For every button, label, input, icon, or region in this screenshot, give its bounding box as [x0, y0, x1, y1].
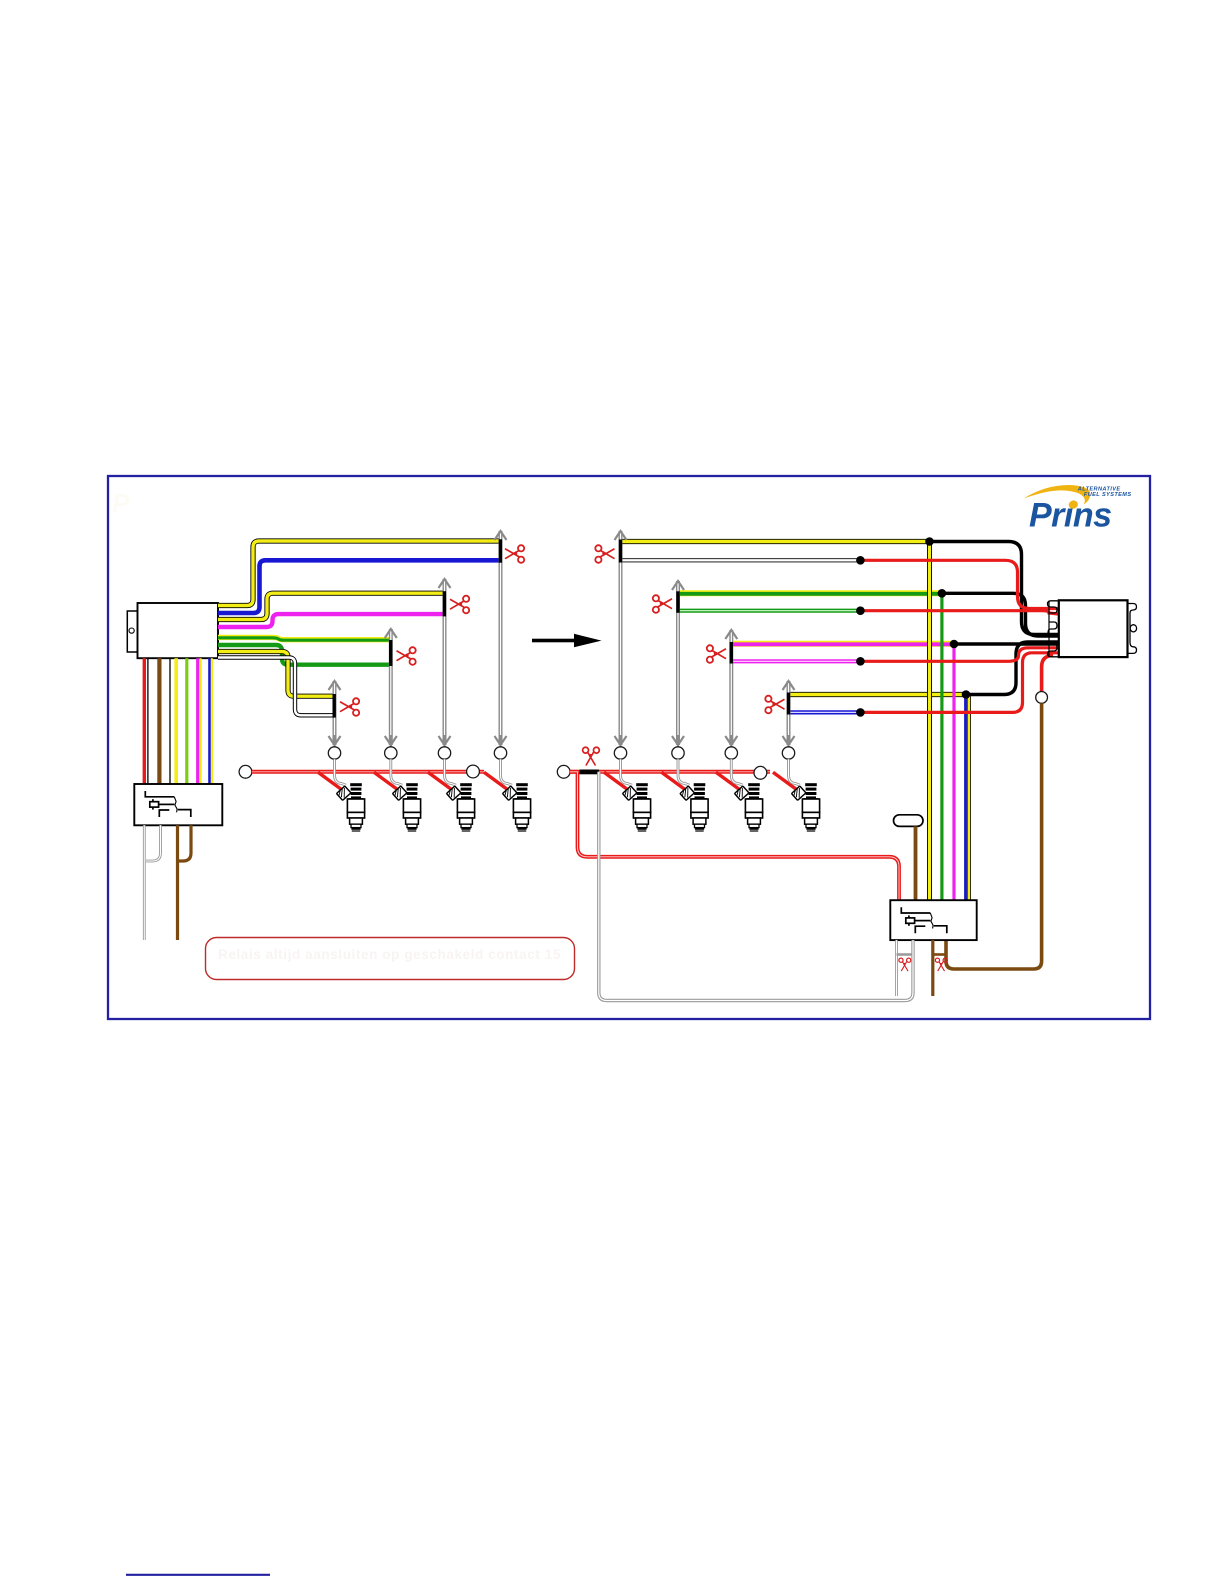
scissors cut pair4	[340, 698, 359, 716]
cut mark pair3 right	[730, 642, 733, 664]
wire injector2 signal magenta	[218, 614, 445, 627]
OEM ECU connector J1	[127, 603, 218, 658]
scissors cut pair1 right	[595, 545, 614, 563]
red branch to injector 2 right	[662, 772, 686, 789]
footer rule	[126, 1574, 270, 1576]
junction dot 3	[950, 640, 959, 649]
splice ring on left bus	[467, 765, 480, 778]
wire ring to injector 4 right	[782, 747, 794, 759]
wire injector4 yellow right	[789, 692, 967, 697]
grey pin stub cut	[895, 940, 898, 996]
ECU harness wire brown ground	[157, 658, 161, 784]
cut wire injector3 magenta right	[731, 659, 860, 663]
grey pin wire left relay 1	[143, 825, 146, 940]
petrol injector 3 left	[446, 783, 474, 831]
brown pin stub cut	[931, 940, 934, 996]
cut mark pair1	[499, 539, 502, 562]
petrol injector 4 right	[791, 783, 819, 831]
red wire from splice 3	[860, 648, 1058, 662]
cut mark pair3	[389, 640, 392, 666]
12V supply ring terminal left	[239, 765, 252, 778]
Prins logo swoosh	[1024, 485, 1091, 504]
brown wire ring to gas relay	[946, 703, 1042, 969]
splice ring on right bus	[754, 766, 767, 779]
cut mark pair4 right	[787, 693, 790, 715]
red branch to injector 1 left	[318, 772, 342, 789]
faint ghost logo top-left	[112, 488, 130, 518]
red branch to injector 1 right	[604, 772, 628, 789]
brown rung	[933, 953, 946, 956]
scissors cut red bus	[583, 747, 600, 765]
red wire from splice 4	[860, 653, 1058, 713]
grey pull-down arrow left 4	[333, 681, 337, 745]
scissors cut pair2	[450, 596, 469, 614]
Prins VSI ECU connector	[1048, 600, 1137, 657]
ECU harness wire yellow	[211, 658, 213, 784]
transition arrow	[532, 639, 576, 643]
wire ring to injector 3 right	[725, 747, 737, 759]
yellow drop wire to relay	[927, 542, 932, 901]
junction dot 1	[925, 537, 934, 546]
wire injector4 signal yellow	[218, 652, 334, 697]
red wire from splice 1	[860, 560, 1058, 608]
red wire connector to ring terminal	[1042, 656, 1053, 692]
svg-text:Prıns: Prıns	[1029, 497, 1112, 535]
wire ring to injector 1 right	[614, 747, 626, 759]
black wire from junction 3	[954, 642, 1058, 645]
grey pull-down arrow right 4	[787, 681, 791, 745]
petrol injector 4 left	[502, 783, 530, 831]
ECU harness wire blue	[208, 658, 211, 784]
relay symbol right	[901, 907, 947, 933]
ECU harness wire magenta	[196, 658, 199, 784]
warning note box	[206, 938, 575, 980]
wire injector2 signal yellow	[218, 593, 445, 619]
petrol injector 3 right	[734, 783, 762, 831]
red supply bus right	[570, 770, 770, 774]
wire injector3 magenta-yellow right	[731, 641, 954, 647]
splice dot 4	[856, 708, 865, 717]
wire ring to injector 2 left	[385, 747, 397, 759]
ECU harness wire black	[169, 658, 171, 784]
svg-text:Relais altijd aansluiten op ge: Relais altijd aansluiten op geschakeld c…	[218, 947, 561, 962]
petrol injector 1 right	[622, 783, 650, 831]
black wire from junction 1	[930, 542, 1059, 635]
cut mark pair1 right	[619, 540, 622, 563]
petrol injector 1 left	[336, 783, 364, 831]
ring terminal battery	[1036, 692, 1048, 704]
magenta drop wire to relay	[952, 644, 955, 900]
svg-text:P: P	[112, 488, 130, 518]
red wire from splice 2	[860, 611, 1058, 614]
splice dot 2	[856, 606, 865, 615]
Prins gas relay	[890, 900, 976, 940]
red branch to injector 4 right	[773, 772, 797, 789]
cut wire injector2 green right	[678, 609, 860, 613]
Prins logo i-dot	[1068, 499, 1079, 510]
grey pull-down arrow left 1	[499, 531, 503, 745]
black wire from junction 2	[942, 593, 1058, 636]
red supply bus left	[252, 770, 484, 774]
grey ground loop wire	[599, 772, 913, 1001]
wire ring to injector 3 left	[438, 747, 450, 759]
red branch to injector 4 left	[484, 772, 508, 789]
red wire bus to gas relay	[570, 772, 899, 900]
grey pull-down arrow left 2	[443, 579, 447, 745]
grey pull-down arrow right 1	[619, 531, 623, 745]
12V ring terminal right	[557, 765, 570, 778]
fuse 15A	[894, 815, 924, 827]
splice dot 3	[856, 657, 865, 666]
wire injector3 signal green	[218, 645, 391, 665]
wire ring to injector 1 left	[328, 747, 340, 759]
wire injector1 signal blue	[218, 560, 501, 613]
wire injector1 signal yellow	[218, 541, 501, 606]
yellow drop wire 2 to relay	[967, 696, 971, 901]
wire injector4 signal white	[218, 658, 334, 716]
wire ring to injector 4 left	[494, 747, 506, 759]
ECU harness wire black	[147, 658, 149, 784]
diagram frame border	[108, 476, 1150, 1019]
black wire from junction 4	[966, 642, 1058, 695]
red branch to injector 2 left	[374, 772, 398, 789]
ECU harness wire yellow	[174, 658, 178, 784]
cut wire injector1 yellow right	[621, 539, 930, 544]
ECU harness wire red 12V	[143, 658, 146, 784]
junction dot 2	[938, 589, 947, 598]
red branch to injector 3 right	[716, 772, 740, 789]
red branch to injector 3 left	[428, 772, 452, 789]
wire injector3 signal green-yellow	[218, 637, 391, 639]
grey pull-down arrow left 3	[389, 629, 393, 745]
wire injector2 green-yellow right	[678, 590, 942, 596]
wire ring to injector 2 right	[672, 747, 684, 759]
scissors cut pair3 right	[707, 645, 726, 663]
brown wire fuse to relay	[914, 826, 918, 900]
junction dot 4	[962, 690, 971, 699]
scissors cut brown pin	[935, 958, 947, 971]
petrol injector 2 right	[680, 783, 708, 831]
scissors cut pair3	[397, 647, 416, 665]
ECU harness wire yellow	[200, 658, 202, 784]
splice dot 1	[856, 556, 865, 565]
cut mark pair4	[333, 694, 336, 718]
scissors cut pair1	[505, 545, 524, 563]
blue drop wire to relay	[964, 696, 967, 901]
cut mark pair2 right	[676, 591, 679, 613]
cut mark on red bus	[580, 770, 600, 775]
grey pull-down arrow right 2	[676, 581, 680, 745]
brown pin wire left relay 2	[179, 825, 191, 861]
grey rung	[897, 953, 914, 955]
petrol injector 2 left	[392, 783, 420, 831]
svg-text:FUEL SYSTEMS: FUEL SYSTEMS	[1084, 492, 1132, 498]
ECU harness wire yellow-green	[185, 658, 188, 784]
relay symbol left	[145, 791, 191, 817]
green drop wire to relay	[940, 593, 943, 900]
OEM relay module left	[134, 784, 222, 825]
brown pin wire left relay 1	[176, 825, 179, 940]
cut wire injector1 white right	[621, 558, 861, 562]
grey pin wire left relay 2	[146, 825, 161, 861]
scissors cut grey pin	[899, 958, 911, 971]
scissors cut pair2 right	[653, 595, 672, 613]
grey pull-down arrow right 3	[729, 630, 733, 745]
cut wire injector4 blue right	[789, 710, 861, 714]
scissors cut pair4 right	[765, 696, 784, 714]
cut mark pair2	[443, 591, 446, 616]
